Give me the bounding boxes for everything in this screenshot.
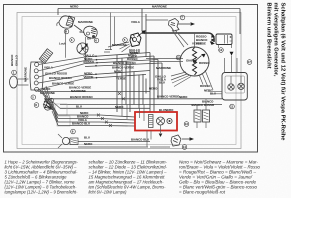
svg-text:BIANCO BLU: BIANCO BLU [72,122,90,126]
svg-text:= Blanc-rouge/Weiß-rot: = Blanc-rouge/Weiß-rot [179,189,226,194]
svg-text:BIANCO VERDE: BIANCO VERDE [157,94,179,98]
svg-text:ROSSO: ROSSO [84,60,95,64]
svg-text:mit vierpoligem Generator,: mit vierpoligem Generator, [273,3,279,77]
svg-text:Off: Off [87,37,91,41]
svg-text:VERDE: VERDE [84,75,94,79]
svg-text:NERO: NERO [149,87,158,91]
svg-text:11: 11 [230,105,233,109]
svg-text:MARRONE: MARRONE [152,5,167,9]
svg-text:BIANCO ROSSO: BIANCO ROSSO [192,103,215,107]
svg-text:17: 17 [248,60,252,64]
svg-text:BLU: BLU [84,136,90,140]
svg-text:12: 12 [219,48,223,52]
svg-text:Schaltplan (6 Volt und 12 Volt: Schaltplan (6 Volt und 12 Volt) für Vesp… [280,3,286,141]
svg-text:VIOLA: VIOLA [131,20,141,24]
svg-text:15: 15 [177,56,181,60]
svg-text:licht 6V–10W Lampe): licht 6V–10W Lampe) [89,189,128,194]
svg-text:On: On [80,30,84,34]
svg-text:BIANCO ROSSO: BIANCO ROSSO [113,61,136,65]
svg-text:NERO: NERO [70,5,79,9]
svg-text:BLU: BLU [76,104,82,108]
svg-text:MARRONE: MARRONE [78,20,93,24]
svg-text:ROSSO: ROSSO [200,84,211,88]
svg-text:GIALLO: GIALLO [186,58,198,62]
svg-text:MARRONE: MARRONE [71,89,86,93]
svg-text:tungslampe (12V–1,2W) – 9 Brem: tungslampe (12V–1,2W) – 9 Bremslicht- [5,189,79,194]
svg-text:14: 14 [183,145,187,149]
svg-text:VERDE: VERDE [116,76,126,80]
svg-text:BLU: BLU [159,80,165,84]
svg-text:VERDE: VERDE [192,42,202,46]
svg-text:ROSSO: ROSSO [127,57,138,61]
svg-text:BIANCO BLU: BIANCO BLU [131,138,149,142]
svg-text:ROSSO: ROSSO [199,61,210,65]
svg-text:Lock: Lock [59,42,66,46]
svg-text:MARRONE: MARRONE [24,67,28,82]
svg-text:NERO: NERO [179,95,188,99]
svg-text:13: 13 [185,122,189,126]
svg-text:GIALLO: GIALLO [15,54,19,66]
svg-text:NERO: NERO [84,142,93,146]
svg-text:MARRONE: MARRONE [156,66,171,70]
svg-text:Blinkern und Bremslicht: Blinkern und Bremslicht [266,3,272,69]
svg-text:MARRONE: MARRONE [112,43,127,47]
svg-text:BIANCO: BIANCO [10,54,14,66]
svg-text:NERO: NERO [115,105,124,109]
svg-text:BIANCO ROSSO: BIANCO ROSSO [70,95,93,99]
